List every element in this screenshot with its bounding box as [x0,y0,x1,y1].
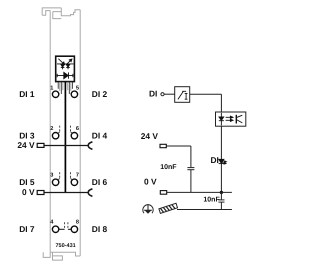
svg-text:3: 3 [50,172,53,178]
svg-text:DI: DI [211,155,219,165]
svg-text:DI: DI [149,89,157,99]
svg-text:8: 8 [76,219,79,225]
svg-text:DI 8: DI 8 [92,224,108,234]
svg-text:DI 5: DI 5 [19,177,35,187]
svg-text:6: 6 [76,126,79,132]
svg-text:4: 4 [50,219,54,225]
svg-text:24 V: 24 V [141,131,159,141]
svg-text:2: 2 [50,126,53,132]
svg-text:DI 4: DI 4 [92,131,108,141]
svg-text:24 V: 24 V [17,140,35,150]
svg-text:0 V: 0 V [144,177,157,187]
svg-text:10nF: 10nF [160,164,177,171]
svg-text:750-431: 750-431 [56,243,76,249]
svg-text:DI 7: DI 7 [19,224,35,234]
svg-text:1: 1 [50,85,53,91]
svg-text:10nF: 10nF [203,197,220,204]
svg-text:DI 1: DI 1 [19,89,35,99]
svg-text:DI 6: DI 6 [92,177,108,187]
svg-text:7: 7 [76,172,79,178]
svg-text:5: 5 [76,85,79,91]
svg-text:DI 2: DI 2 [92,89,108,99]
svg-text:0 V: 0 V [22,187,35,197]
